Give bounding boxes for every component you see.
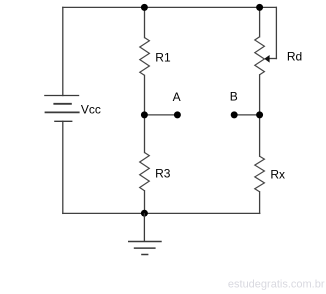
wire node B to Rx (259, 115, 261, 156)
junction dot left branch at node A (141, 111, 148, 118)
svg-text:estudegratis.com.br: estudegratis.com.br (228, 278, 325, 290)
wire Rd to node B (259, 75, 261, 115)
battery Vcc (44, 96, 79, 122)
wire left vertical lower (battery - to bottom rail) (62, 121, 64, 213)
Rd wiper arrowhead (264, 55, 269, 63)
node B terminal dot (231, 111, 238, 118)
svg-text:R3: R3 (155, 167, 171, 181)
wire Rd top stub (259, 7, 261, 36)
wire Rd wiper horizontal (269, 58, 277, 60)
wire R1 to node A (144, 75, 146, 115)
wire Rx to bottom rail (259, 192, 261, 214)
wire left vertical upper (battery + to top rail) (62, 7, 64, 95)
wire bottom rail (63, 212, 260, 214)
svg-text:B: B (230, 90, 238, 104)
wire R3 to bottom rail (144, 191, 146, 214)
junction dot top Rd branch (256, 4, 263, 11)
resistor R1 (140, 38, 150, 76)
wire R1 top stub (144, 7, 146, 37)
svg-text:A: A (173, 90, 181, 104)
junction dot right branch at node B (256, 111, 263, 118)
svg-text:Rx: Rx (270, 168, 285, 182)
wire node B stub (234, 114, 259, 116)
wire Rd wiper vertical (275, 7, 277, 58)
wire node A to R3 (144, 115, 146, 153)
svg-text:Vcc: Vcc (81, 102, 101, 116)
wire top rail (63, 6, 276, 8)
junction dot bottom rail (141, 210, 148, 217)
resistor R3 (140, 153, 150, 191)
junction dot top R1 branch (141, 4, 148, 11)
resistor Rx (255, 156, 265, 192)
potentiometer Rd (255, 37, 265, 75)
svg-text:Rd: Rd (287, 49, 302, 63)
wire node A stub (145, 114, 178, 116)
node A terminal dot (174, 111, 181, 118)
ground (128, 213, 162, 254)
svg-text:R1: R1 (155, 50, 171, 64)
